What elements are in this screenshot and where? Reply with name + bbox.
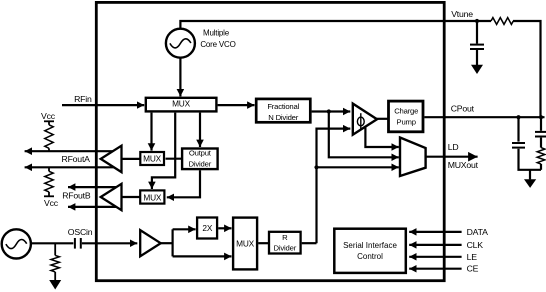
svg-text:N Divider: N Divider xyxy=(268,113,298,122)
svg-text:Fractional: Fractional xyxy=(267,102,299,111)
svg-text:RFoutB: RFoutB xyxy=(62,191,91,201)
svg-text:Pump: Pump xyxy=(397,117,416,126)
svg-text:Output: Output xyxy=(189,149,212,158)
svg-text:MUX: MUX xyxy=(143,154,162,164)
svg-text:MUX: MUX xyxy=(236,239,255,249)
svg-text:Charge: Charge xyxy=(394,107,418,116)
svg-text:RFin: RFin xyxy=(74,94,92,104)
svg-text:R: R xyxy=(282,233,288,242)
svg-text:Control: Control xyxy=(357,252,383,261)
svg-text:2X: 2X xyxy=(202,223,212,233)
svg-text:OSCin: OSCin xyxy=(68,227,93,237)
svg-text:RFoutA: RFoutA xyxy=(62,154,91,164)
svg-text:Vcc: Vcc xyxy=(41,111,56,121)
svg-text:LE: LE xyxy=(467,252,478,262)
svg-text:CLK: CLK xyxy=(467,240,484,250)
svg-text:MUX: MUX xyxy=(172,99,191,109)
svg-text:Divider: Divider xyxy=(189,159,212,168)
svg-text:Core VCO: Core VCO xyxy=(200,40,235,49)
svg-text:CE: CE xyxy=(467,264,479,274)
svg-text:MUXout: MUXout xyxy=(448,160,479,170)
svg-text:Serial Interface: Serial Interface xyxy=(343,241,397,250)
svg-text:DATA: DATA xyxy=(467,227,488,237)
svg-text:CPout: CPout xyxy=(451,104,475,114)
svg-text:Vcc: Vcc xyxy=(44,198,59,208)
svg-text:MUX: MUX xyxy=(143,192,162,202)
svg-text:LD: LD xyxy=(448,142,459,152)
svg-text:Vtune: Vtune xyxy=(451,9,473,19)
svg-text:Divider: Divider xyxy=(274,244,297,253)
svg-text:Multiple: Multiple xyxy=(203,28,230,37)
